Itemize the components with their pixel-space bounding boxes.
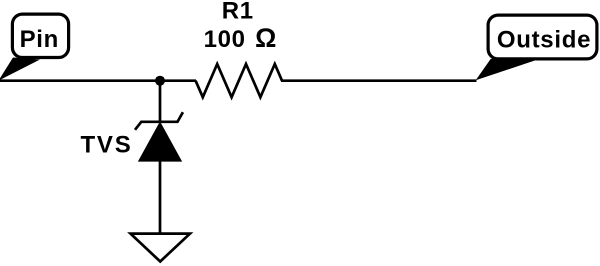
node Pin (balloon label) bbox=[0, 14, 69, 81]
svg-text:100: 100 bbox=[204, 26, 246, 53]
diode D1 TVS (zener cathode bar with bent ends) bbox=[135, 112, 183, 130]
wire: Pin tail to junction bbox=[0, 79, 196, 82]
svg-text:R1: R1 bbox=[222, 0, 254, 25]
svg-text:Ω: Ω bbox=[255, 23, 276, 53]
wire: TVS anode to ground bbox=[159, 161, 162, 234]
svg-text:Pin: Pin bbox=[20, 26, 59, 53]
resistor R1 bbox=[196, 64, 282, 97]
diode D1 TVS (anode triangle) bbox=[139, 123, 181, 161]
node Outside (balloon label) bbox=[476, 15, 597, 80]
junction node (dot) bbox=[155, 76, 165, 86]
wire: junction to TVS cathode bbox=[159, 81, 162, 122]
wire: R1 right end to Outside tail bbox=[281, 79, 477, 82]
svg-text:TVS: TVS bbox=[80, 132, 132, 159]
svg-text:Outside: Outside bbox=[497, 26, 591, 53]
ground bbox=[131, 234, 191, 262]
